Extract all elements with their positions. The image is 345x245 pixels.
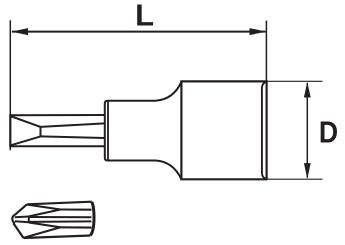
bit taper top: [10, 116, 40, 127]
svg-text:L: L: [135, 0, 154, 32]
bit tip face: [9, 114, 11, 147]
bit core line top: [41, 123, 105, 127]
3d bit bottom slope: [13, 223, 23, 238]
3d bit core vertical: [28, 216, 30, 223]
bit flute vertical: [40, 126, 42, 137]
3d bit middle line lower: [29, 220, 92, 223]
3d bit middle line upper: [29, 216, 92, 218]
3d bit lower flute ridge line: [61, 226, 92, 228]
bit taper bottom: [10, 136, 40, 145]
arrowhead L right: [250, 28, 267, 35]
3d bit core wedge top: [15, 216, 29, 219]
D extension line bottom: [268, 178, 323, 180]
3d bit bottom edge: [24, 236, 91, 239]
bit holder collar outline: [105, 82, 182, 180]
3d bit lower flute bottom arm: [24, 227, 61, 238]
arrowhead D top: [304, 82, 311, 98]
3d bit end cap: [91, 202, 94, 235]
3d bit tip arc: [12, 215, 15, 224]
3d bit top edge: [27, 202, 92, 205]
arrowhead D bottom: [304, 163, 311, 179]
extension line left: [9, 20, 11, 150]
arrowhead L left: [11, 28, 28, 35]
svg-text:D: D: [319, 116, 338, 150]
3d bit core wedge bottom: [15, 221, 29, 222]
bit holder face inner line: [107, 101, 109, 160]
3d bit top slope: [15, 204, 27, 214]
bit outline top: [10, 114, 105, 116]
dimension line D: [306, 83, 308, 178]
3d bit lower flute top arm: [29, 223, 61, 228]
extension line right: [265, 21, 267, 81]
bit outline bottom: [10, 145, 105, 147]
socket body: [181, 81, 266, 179]
bit core line bottom: [41, 136, 105, 138]
3d bit upper flute bottom arm: [29, 210, 61, 217]
3d bit upper flute top arm: [27, 205, 61, 210]
dimension line L: [12, 31, 266, 33]
3d bit upper flute ridge line: [61, 208, 92, 210]
socket chamfer line: [262, 82, 266, 179]
D extension line top: [268, 80, 323, 82]
